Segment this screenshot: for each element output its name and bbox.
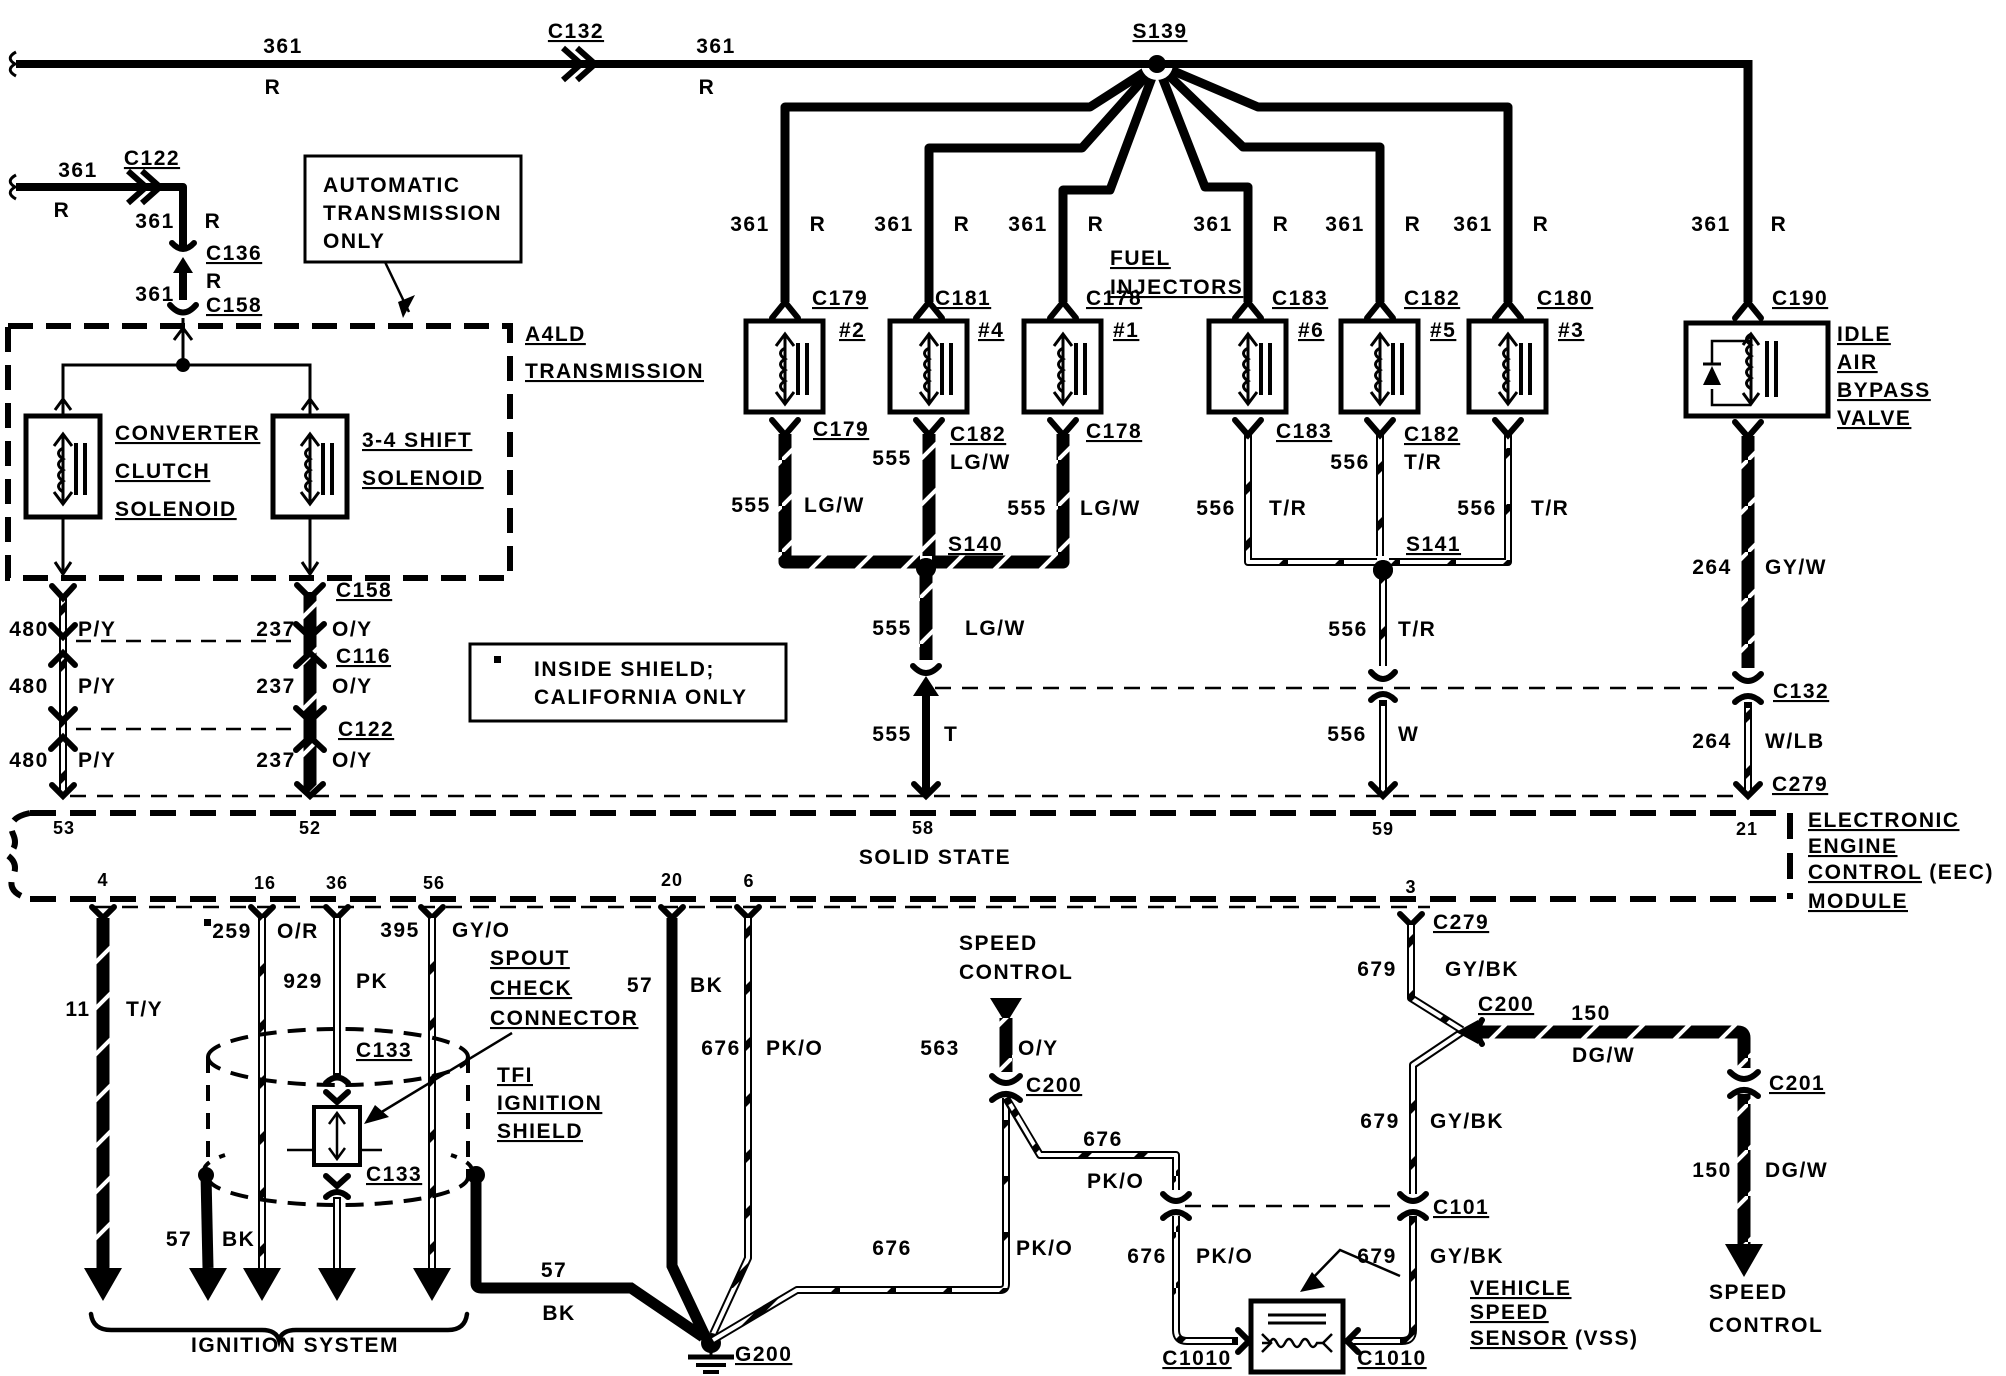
svg-text:P/Y: P/Y xyxy=(78,618,116,641)
connector C201 xyxy=(1730,1072,1825,1096)
svg-text:IDLE: IDLE xyxy=(1837,323,1891,346)
svg-text:16: 16 xyxy=(254,873,276,893)
svg-text:W: W xyxy=(1398,723,1419,746)
svg-text:59: 59 xyxy=(1372,819,1394,839)
fuel injector #6 xyxy=(1209,287,1328,412)
svg-text:361: 361 xyxy=(730,213,770,236)
svg-text:361: 361 xyxy=(1691,213,1731,236)
svg-text:A4LD: A4LD xyxy=(525,323,586,346)
svg-text:T: T xyxy=(944,723,958,746)
svg-text:T/R: T/R xyxy=(1531,497,1569,520)
wire 929 PK (pin 36) xyxy=(283,907,388,1075)
wire 676 PK/O to ground xyxy=(713,1098,1073,1340)
svg-text:679: 679 xyxy=(1357,1245,1397,1268)
svg-text:3: 3 xyxy=(1405,877,1416,897)
wire 264 GY/W from IAB valve xyxy=(1692,422,1827,668)
svg-text:C101: C101 xyxy=(1433,1196,1489,1219)
wire 480 P/Y (pin 53) xyxy=(9,586,116,796)
connector C101 (676 wire) xyxy=(1163,1194,1189,1218)
svg-text:BYPASS: BYPASS xyxy=(1837,379,1931,402)
svg-text:361: 361 xyxy=(1008,213,1048,236)
svg-text:CHECK: CHECK xyxy=(490,977,572,1000)
label TFI ignition shield xyxy=(497,1064,602,1143)
wire 57 BK (right shield drain to G200) xyxy=(476,1175,703,1337)
splice S139 xyxy=(1132,20,1187,43)
svg-text:676: 676 xyxy=(872,1237,912,1260)
svg-text:555: 555 xyxy=(872,723,912,746)
svg-text:556: 556 xyxy=(1327,723,1367,746)
svg-text:C200: C200 xyxy=(1478,993,1534,1016)
note box automatic transmission only xyxy=(305,156,521,318)
connector line (EEC bottom) xyxy=(95,906,1430,909)
wire inside A4LD box xyxy=(55,318,318,416)
svg-text:LG/W: LG/W xyxy=(804,494,865,517)
svg-text:361: 361 xyxy=(1325,213,1365,236)
svg-text:56: 56 xyxy=(423,873,445,893)
svg-text:T/R: T/R xyxy=(1404,451,1442,474)
svg-text:361: 361 xyxy=(58,159,98,182)
svg-text:R: R xyxy=(699,76,716,99)
svg-text:C136: C136 xyxy=(206,242,262,265)
fuel injector #3 xyxy=(1469,287,1593,412)
svg-text:R: R xyxy=(1088,213,1105,236)
gather wire 555 injector 4 to S140 xyxy=(923,434,936,556)
svg-text:150: 150 xyxy=(1571,1002,1611,1025)
wire 679 GY/BK from EEC pin 3 xyxy=(1357,911,1519,1030)
svg-text:O/R: O/R xyxy=(277,920,319,943)
svg-text:361: 361 xyxy=(874,213,914,236)
svg-text:#1: #1 xyxy=(1113,319,1139,342)
wires out of solenoids to EEC xyxy=(55,517,318,574)
svg-text:361: 361 xyxy=(696,35,736,58)
spout check connector symbol xyxy=(287,1107,382,1165)
svg-text:676: 676 xyxy=(1083,1128,1123,1151)
wire 361 R to injector 1 xyxy=(1063,64,1157,302)
svg-text:57: 57 xyxy=(166,1228,192,1251)
svg-text:C132: C132 xyxy=(548,20,604,43)
wire 361 R main feed xyxy=(10,35,1748,99)
svg-text:SPEED: SPEED xyxy=(959,932,1038,955)
EEC pin numbers bottom row xyxy=(97,870,1416,897)
connector C1010 labels xyxy=(1162,1347,1426,1370)
svg-text:O/Y: O/Y xyxy=(332,618,373,641)
label fuel injectors xyxy=(1110,247,1243,299)
wire 679 GY/BK from VSS xyxy=(1347,1216,1504,1352)
svg-text:555: 555 xyxy=(872,447,912,470)
svg-text:C190: C190 xyxy=(1772,287,1828,310)
svg-text:555: 555 xyxy=(1007,497,1047,520)
svg-text:264: 264 xyxy=(1692,730,1732,753)
svg-text:C133: C133 xyxy=(366,1163,422,1186)
svg-text:T/R: T/R xyxy=(1269,497,1307,520)
svg-text:480: 480 xyxy=(9,618,49,641)
svg-text:C182: C182 xyxy=(950,423,1006,446)
3-4 shift solenoid xyxy=(273,416,484,517)
svg-text:O/Y: O/Y xyxy=(332,749,373,772)
wire 676 PK/O (pin 6) xyxy=(701,907,823,1334)
svg-text:SPEED: SPEED xyxy=(1470,1301,1549,1324)
svg-text:LG/W: LG/W xyxy=(950,451,1011,474)
svg-text:C122: C122 xyxy=(338,718,394,741)
svg-text:R: R xyxy=(54,199,71,222)
svg-text:W/LB: W/LB xyxy=(1765,730,1825,753)
gather wire 555 injector 1 to S140 xyxy=(932,434,1063,562)
svg-text:PK: PK xyxy=(356,970,388,993)
label vehicle speed sensor xyxy=(1300,1250,1639,1350)
idle air bypass valve xyxy=(1686,287,1931,430)
connector C132 (top wire) xyxy=(548,20,736,99)
svg-text:150: 150 xyxy=(1692,1159,1732,1182)
svg-text:ENGINE: ENGINE xyxy=(1808,835,1898,858)
fuel injector #2 xyxy=(746,287,868,412)
svg-text:264: 264 xyxy=(1692,556,1732,579)
svg-text:CLUTCH: CLUTCH xyxy=(115,460,210,483)
svg-text:556: 556 xyxy=(1330,451,1370,474)
svg-text:SENSOR (VSS): SENSOR (VSS) xyxy=(1470,1327,1639,1350)
wire 264 W/LB to C279 xyxy=(1692,702,1828,796)
svg-text:556: 556 xyxy=(1457,497,1497,520)
svg-text:C183: C183 xyxy=(1272,287,1328,310)
svg-text:R: R xyxy=(810,213,827,236)
svg-text:C183: C183 xyxy=(1276,420,1332,443)
wire 150 DG/W xyxy=(1481,1002,1744,1068)
wire labels 361 R columns xyxy=(730,213,1787,236)
svg-text:SOLENOID: SOLENOID xyxy=(115,498,237,521)
svg-text:C201: C201 xyxy=(1769,1072,1825,1095)
converter clutch solenoid xyxy=(26,416,260,521)
TFI ignition shield dashed cylinder xyxy=(204,1029,472,1205)
wire 11 T/Y (pin 4) xyxy=(65,907,163,1301)
wire 150 DG/W to speed control xyxy=(1692,1094,1828,1277)
svg-text:FUEL: FUEL xyxy=(1110,247,1171,270)
gather wire 555 injector 2 to S140 xyxy=(785,434,920,562)
gather wire 556 injector 6 to S141 xyxy=(1248,434,1377,562)
svg-text:#5: #5 xyxy=(1430,319,1456,342)
label speed control (lower right) xyxy=(1709,1281,1823,1337)
svg-text:P/Y: P/Y xyxy=(78,675,116,698)
ground G200 xyxy=(688,1333,792,1372)
svg-text:BK: BK xyxy=(690,974,723,997)
wire 259 O/R (pin 16) xyxy=(204,907,319,1301)
fuel injector #5 xyxy=(1341,287,1460,412)
svg-text:PK/O: PK/O xyxy=(1087,1170,1144,1193)
svg-text:SOLENOID: SOLENOID xyxy=(362,467,484,490)
svg-text:C179: C179 xyxy=(812,287,868,310)
svg-text:S141: S141 xyxy=(1406,533,1461,556)
wire 361 R to injector 3 xyxy=(1157,64,1508,302)
svg-text:GY/BK: GY/BK xyxy=(1445,958,1519,981)
svg-text:CONTROL (EEC): CONTROL (EEC) xyxy=(1808,861,1994,884)
svg-text:C158: C158 xyxy=(206,294,262,317)
svg-text:53: 53 xyxy=(53,818,75,838)
svg-text:DG/W: DG/W xyxy=(1572,1044,1635,1067)
svg-text:C133: C133 xyxy=(356,1039,412,1062)
wire 361 R to injector 2 xyxy=(785,64,1157,302)
svg-text:C182: C182 xyxy=(1404,287,1460,310)
svg-text:CONVERTER: CONVERTER xyxy=(115,422,260,445)
svg-text:C178: C178 xyxy=(1086,420,1142,443)
splice S140 xyxy=(772,420,1076,578)
svg-text:DG/W: DG/W xyxy=(1765,1159,1828,1182)
svg-text:259: 259 xyxy=(212,920,252,943)
svg-text:ONLY: ONLY xyxy=(323,230,385,253)
svg-text:C158: C158 xyxy=(336,579,392,602)
svg-text:C1010: C1010 xyxy=(1162,1347,1231,1370)
splice dot S139 xyxy=(1136,48,1178,80)
svg-text:11: 11 xyxy=(65,998,90,1021)
wire 361 R to injector 5 xyxy=(1157,64,1380,302)
wire 395 GY/O (pin 56) xyxy=(380,907,510,1301)
svg-text:LG/W: LG/W xyxy=(1080,497,1141,520)
svg-text:555: 555 xyxy=(872,617,912,640)
svg-text:IGNITION: IGNITION xyxy=(497,1092,602,1115)
svg-text:C178: C178 xyxy=(1086,287,1142,310)
svg-text:556: 556 xyxy=(1328,618,1368,641)
svg-text:CONTROL: CONTROL xyxy=(959,961,1073,984)
svg-text:679: 679 xyxy=(1360,1110,1400,1133)
svg-text:ELECTRONIC: ELECTRONIC xyxy=(1808,809,1960,832)
svg-text:555: 555 xyxy=(731,494,771,517)
svg-text:SPEED: SPEED xyxy=(1709,1281,1788,1304)
svg-text:BK: BK xyxy=(542,1302,575,1325)
svg-text:C1010: C1010 xyxy=(1357,1347,1426,1370)
svg-text:21: 21 xyxy=(1736,819,1758,839)
labels 556 T/R group xyxy=(1196,420,1569,520)
svg-text:237: 237 xyxy=(256,749,296,772)
svg-text:R: R xyxy=(1405,213,1422,236)
svg-text:BK: BK xyxy=(222,1228,255,1251)
svg-text:361: 361 xyxy=(1453,213,1493,236)
svg-text:237: 237 xyxy=(256,675,296,698)
labels 555 LG/W group xyxy=(731,418,1142,520)
wire 361 R to injector 4 xyxy=(929,64,1157,302)
svg-text:R: R xyxy=(1771,213,1788,236)
svg-text:CALIFORNIA ONLY: CALIFORNIA ONLY xyxy=(534,686,747,709)
inline connector (556 at C132 line) xyxy=(1371,672,1395,700)
svg-text:R: R xyxy=(1533,213,1550,236)
svg-text:C122: C122 xyxy=(124,147,180,170)
label electronic engine control module xyxy=(1808,809,1994,913)
wire 361 R to idle air bypass valve xyxy=(1744,60,1753,302)
svg-text:C200: C200 xyxy=(1026,1074,1082,1097)
svg-text:LG/W: LG/W xyxy=(965,617,1026,640)
wire 555 T to EEC pin 58 xyxy=(872,692,958,796)
svg-text:C279: C279 xyxy=(1772,773,1828,796)
svg-text:C116: C116 xyxy=(336,645,391,668)
svg-text:S140: S140 xyxy=(948,533,1003,556)
svg-text:237: 237 xyxy=(256,618,296,641)
svg-text:AUTOMATIC: AUTOMATIC xyxy=(323,174,461,197)
svg-text:T/Y: T/Y xyxy=(126,998,163,1021)
svg-text:SHIELD: SHIELD xyxy=(497,1120,583,1143)
svg-text:P/Y: P/Y xyxy=(78,749,116,772)
svg-text:6: 6 xyxy=(743,871,754,891)
svg-text:O/Y: O/Y xyxy=(1018,1037,1059,1060)
gather wire 556 injector 3 to S141 xyxy=(1389,434,1508,562)
connector C132 (264 wire) xyxy=(1735,674,1829,703)
svg-text:R: R xyxy=(205,210,222,233)
svg-text:SOLID STATE: SOLID STATE xyxy=(859,846,1011,869)
svg-text:36: 36 xyxy=(326,873,348,893)
svg-text:GY/W: GY/W xyxy=(1765,556,1827,579)
wire 57 BK (pin 20) xyxy=(627,907,724,1338)
svg-text:C279: C279 xyxy=(1433,911,1489,934)
svg-text:929: 929 xyxy=(283,970,323,993)
connector C136 xyxy=(135,242,262,306)
connector line C279 (EEC top) xyxy=(70,795,1740,798)
svg-text:C180: C180 xyxy=(1537,287,1593,310)
wire 556 below S141 xyxy=(1328,560,1436,666)
gather wire 556 injector 5 to S141 xyxy=(1376,434,1384,556)
label speed control (upper) xyxy=(959,932,1073,984)
svg-text:MODULE: MODULE xyxy=(1808,890,1908,913)
ignition system brace xyxy=(91,1314,467,1357)
svg-text:R: R xyxy=(265,76,282,99)
label spout check connector xyxy=(364,947,638,1124)
wire 679 GY/BK to C200 xyxy=(1360,1032,1504,1194)
wire 361 R feed to A4LD xyxy=(10,159,183,250)
dashed line C101 xyxy=(1185,1196,1489,1219)
EEC pin numbers top row xyxy=(53,818,1758,839)
vehicle speed sensor box xyxy=(1251,1301,1343,1372)
A4LD transmission dashed box xyxy=(8,323,704,578)
splice S141 xyxy=(1235,420,1521,580)
svg-text:R: R xyxy=(1273,213,1290,236)
connector C200 (150 wire) xyxy=(1456,993,1534,1044)
svg-text:679: 679 xyxy=(1357,958,1397,981)
svg-text:G200: G200 xyxy=(735,1343,792,1366)
svg-text:INSIDE SHIELD;: INSIDE SHIELD; xyxy=(534,658,715,681)
wire 361 R to injector 6 xyxy=(1157,64,1248,302)
svg-text:#2: #2 xyxy=(839,319,865,342)
svg-text:AIR: AIR xyxy=(1837,351,1878,374)
svg-text:C132: C132 xyxy=(1773,680,1829,703)
connector C122 (A4LD feed) xyxy=(124,147,221,233)
svg-text:563: 563 xyxy=(920,1037,960,1060)
svg-text:PK/O: PK/O xyxy=(1016,1237,1073,1260)
svg-text:SPOUT: SPOUT xyxy=(490,947,570,970)
inline connector C122 (lower) xyxy=(51,708,324,750)
connector C200 (563 wire) xyxy=(992,1074,1082,1100)
svg-text:IGNITION SYSTEM: IGNITION SYSTEM xyxy=(191,1334,399,1357)
fuel injector #4 xyxy=(890,287,1004,412)
svg-text:C181: C181 xyxy=(935,287,991,310)
dashed line C132 xyxy=(935,687,1740,690)
inline connector (555 at C132 line) xyxy=(913,666,939,696)
svg-text:R: R xyxy=(206,270,223,293)
wire 556 W to EEC pin 59 xyxy=(1327,700,1419,796)
svg-text:T/R: T/R xyxy=(1398,618,1436,641)
wire 676 PK/O to VSS branch xyxy=(1006,1098,1176,1193)
svg-text:PK/O: PK/O xyxy=(1196,1245,1253,1268)
svg-text:58: 58 xyxy=(912,818,934,838)
svg-text:3-4 SHIFT: 3-4 SHIFT xyxy=(362,429,472,452)
inline connector C116 xyxy=(51,624,324,666)
svg-text:4: 4 xyxy=(97,870,108,890)
wire 555 below S140 xyxy=(872,558,1026,660)
svg-text:TRANSMISSION: TRANSMISSION xyxy=(323,202,502,225)
svg-text:GY/O: GY/O xyxy=(452,919,511,942)
svg-text:676: 676 xyxy=(701,1037,741,1060)
svg-text:20: 20 xyxy=(661,870,683,890)
svg-text:#3: #3 xyxy=(1558,319,1584,342)
wire 929 PK below spout xyxy=(318,1197,356,1301)
connector C158 (at A4LD box) xyxy=(170,294,262,317)
wire 57 BK (left shield drain) xyxy=(166,1175,256,1301)
wire 237 O/Y (pin 52) xyxy=(256,579,394,796)
svg-text:676: 676 xyxy=(1127,1245,1167,1268)
svg-text:PK/O: PK/O xyxy=(766,1037,823,1060)
svg-text:C179: C179 xyxy=(813,418,869,441)
svg-text:VEHICLE: VEHICLE xyxy=(1470,1277,1572,1300)
svg-text:361: 361 xyxy=(263,35,303,58)
wire 676 PK/O to VSS xyxy=(1127,1216,1253,1352)
svg-text:480: 480 xyxy=(9,675,49,698)
svg-text:361: 361 xyxy=(1193,213,1233,236)
EEC module dashed box xyxy=(7,813,1790,899)
svg-text:VALVE: VALVE xyxy=(1837,407,1911,430)
wire 563 O/Y from speed control xyxy=(920,998,1058,1072)
svg-text:57: 57 xyxy=(627,974,653,997)
shield junction dots xyxy=(198,1167,214,1183)
fuel injector #1 xyxy=(1024,287,1142,412)
svg-text:GY/BK: GY/BK xyxy=(1430,1110,1504,1133)
svg-text:57: 57 xyxy=(541,1259,567,1282)
svg-text:361: 361 xyxy=(135,210,175,233)
svg-text:S139: S139 xyxy=(1132,20,1187,43)
svg-text:O/Y: O/Y xyxy=(332,675,373,698)
svg-text:CONTROL: CONTROL xyxy=(1709,1314,1823,1337)
svg-text:#6: #6 xyxy=(1298,319,1324,342)
svg-text:395: 395 xyxy=(380,919,420,942)
svg-text:TFI: TFI xyxy=(497,1064,533,1087)
connector C101 (679 wire) xyxy=(1400,1194,1426,1218)
svg-text:CONNECTOR: CONNECTOR xyxy=(490,1007,638,1030)
connector C133 (lower) xyxy=(326,1163,422,1197)
svg-text:GY/BK: GY/BK xyxy=(1430,1245,1504,1268)
svg-text:#4: #4 xyxy=(978,319,1004,342)
svg-text:556: 556 xyxy=(1196,497,1236,520)
svg-text:TRANSMISSION: TRANSMISSION xyxy=(525,360,704,383)
svg-text:52: 52 xyxy=(299,818,321,838)
connector C133 (upper) xyxy=(326,1039,412,1102)
svg-text:480: 480 xyxy=(9,749,49,772)
svg-text:R: R xyxy=(954,213,971,236)
note box inside shield california only xyxy=(470,644,786,721)
svg-text:C182: C182 xyxy=(1404,423,1460,446)
